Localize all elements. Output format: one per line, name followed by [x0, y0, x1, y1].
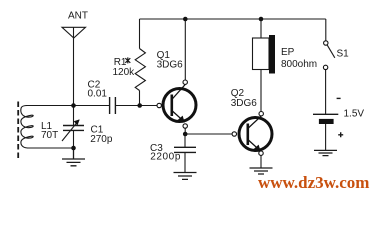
svg-text:S1: S1	[337, 49, 350, 60]
svg-text:270p: 270p	[90, 134, 113, 145]
capacitor C1 arrowhead	[74, 120, 79, 125]
transistor Q2	[239, 116, 272, 151]
wire antenna down	[73, 27, 75, 105]
terminal Q2 base	[232, 132, 236, 136]
wire Q1 emitter down	[184, 128, 186, 134]
capacitor C1 arrow	[62, 120, 79, 141]
label R1 star	[125, 57, 130, 63]
capacitor C2 plates	[110, 97, 116, 114]
wire C3 stem bottom	[184, 152, 186, 172]
wire C2 to Q1 base	[116, 105, 157, 107]
svg-text:120k: 120k	[113, 67, 136, 78]
wire Q1 collector up	[184, 19, 186, 80]
terminal Q1 collector	[183, 80, 187, 84]
switch S1 blade	[327, 45, 335, 58]
ground below Q2	[250, 168, 273, 174]
capacitor C3 plates	[174, 147, 196, 152]
label battery minus	[337, 97, 341, 99]
wire EP top	[260, 19, 262, 38]
junction node R1/C2/base	[137, 103, 142, 108]
terminal Q2 collector	[259, 112, 263, 116]
inductor L1 loops	[21, 106, 33, 149]
resistor R1	[135, 49, 145, 91]
label battery plus	[338, 132, 343, 137]
terminal S1 bottom	[323, 65, 327, 69]
wire C3 stem top	[184, 134, 186, 147]
wire tank bottom	[27, 147, 74, 149]
earphone EP magnet bar	[269, 35, 275, 74]
wire top rail	[140, 18, 326, 20]
ground below battery	[314, 150, 337, 155]
wire S1 to battery	[325, 70, 327, 115]
terminal Q1 emitter	[183, 124, 187, 128]
svg-text:70T: 70T	[41, 130, 58, 141]
svg-text:2200p: 2200p	[150, 152, 181, 163]
wire tank top	[26, 105, 109, 107]
wire EP bottom to Q2 collector	[260, 70, 262, 112]
svg-text:www.dz3w.com: www.dz3w.com	[258, 173, 369, 191]
antenna ANT	[62, 27, 86, 38]
wire emitter junction to Q2 base	[185, 133, 232, 135]
junction node rail Q1 collector	[183, 17, 188, 22]
ground below C3	[174, 173, 197, 180]
transistor Q1	[163, 85, 196, 123]
terminal S1 top	[324, 41, 328, 45]
wire R1 bottom	[139, 91, 141, 106]
earphone EP body	[253, 38, 270, 70]
svg-text:1.5V: 1.5V	[344, 109, 365, 120]
capacitor C1 plates	[63, 126, 84, 131]
battery plate thin	[313, 113, 338, 115]
wire Q2 emitter down	[260, 155, 262, 168]
svg-text:3DG6: 3DG6	[231, 98, 258, 109]
svg-text:3DG6: 3DG6	[157, 59, 184, 70]
junction node tank bottom	[71, 146, 76, 151]
wire S1 drop	[325, 19, 327, 41]
junction node emitter/C3/Q2 base	[183, 132, 188, 137]
svg-text:800ohm: 800ohm	[281, 59, 317, 70]
wire R1 column top	[139, 19, 141, 49]
junction node rail EP	[259, 17, 264, 22]
terminal Q1 base	[157, 103, 161, 107]
terminal Q2 emitter	[259, 151, 263, 155]
junction node antenna/C1 top	[71, 103, 76, 108]
ground below tank	[62, 148, 85, 166]
wire battery bottom	[325, 124, 327, 150]
battery plate thick	[319, 119, 334, 124]
svg-text:ANT: ANT	[68, 11, 88, 22]
svg-text:0.01: 0.01	[88, 89, 108, 100]
svg-text:EP: EP	[281, 47, 295, 58]
capacitor C1 stems	[73, 106, 75, 149]
inductor L1 core dashed	[17, 102, 19, 159]
